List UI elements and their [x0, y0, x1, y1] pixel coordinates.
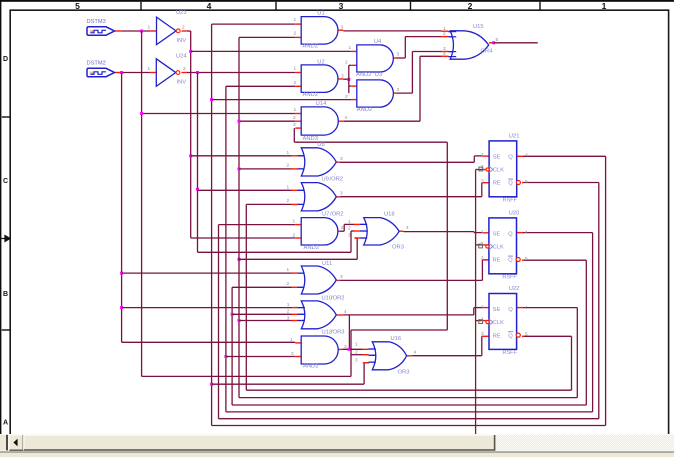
svg-text:U22: U22: [509, 286, 520, 292]
svg-text:3: 3: [481, 331, 484, 337]
svg-text:1: 1: [290, 337, 293, 343]
svg-text:2: 2: [183, 66, 186, 72]
svg-text:B: B: [3, 291, 8, 298]
svg-text:2: 2: [287, 308, 290, 314]
svg-text:U21: U21: [509, 134, 520, 140]
svg-text:5: 5: [525, 256, 528, 262]
svg-text:Q: Q: [508, 231, 513, 237]
svg-text:C: C: [3, 178, 8, 185]
svg-text:U24: U24: [176, 53, 187, 59]
svg-text:2: 2: [481, 241, 484, 247]
svg-text:2: 2: [291, 351, 294, 357]
svg-text:U18: U18: [384, 211, 395, 217]
svg-text:3: 3: [397, 52, 400, 58]
svg-text:D: D: [3, 56, 8, 63]
svg-text:3: 3: [340, 274, 343, 280]
svg-text:4: 4: [207, 1, 212, 11]
svg-text:1: 1: [348, 219, 351, 225]
svg-text:2: 2: [443, 31, 446, 37]
svg-text:2: 2: [294, 31, 297, 37]
svg-text:Q: Q: [508, 307, 513, 313]
svg-text:1: 1: [481, 229, 484, 235]
svg-text:A: A: [3, 420, 8, 427]
svg-text:3: 3: [481, 256, 484, 262]
svg-text:RSFF: RSFF: [503, 350, 518, 356]
svg-text:1: 1: [294, 65, 297, 71]
svg-text:OR3: OR3: [392, 245, 404, 251]
svg-text:1: 1: [287, 267, 290, 273]
svg-text:4: 4: [525, 229, 528, 235]
svg-text:3: 3: [293, 122, 296, 128]
svg-text:U1: U1: [317, 11, 324, 17]
svg-text:1: 1: [355, 341, 358, 347]
svg-text:3: 3: [340, 191, 343, 197]
svg-text:2: 2: [481, 317, 484, 323]
svg-text:2: 2: [345, 94, 348, 100]
svg-text:1: 1: [481, 305, 484, 311]
svg-text:SE: SE: [493, 307, 501, 313]
svg-text:5: 5: [525, 179, 528, 185]
svg-text:3: 3: [481, 179, 484, 185]
svg-text:1: 1: [481, 152, 484, 158]
svg-text:U15: U15: [473, 24, 484, 30]
svg-text:3: 3: [443, 46, 446, 52]
svg-text:Q: Q: [508, 181, 513, 187]
svg-text:5: 5: [496, 37, 499, 43]
svg-text:1: 1: [294, 17, 297, 23]
svg-text:1: 1: [287, 302, 290, 308]
svg-text:3: 3: [348, 233, 351, 239]
svg-text:2: 2: [287, 163, 290, 169]
svg-text:2: 2: [468, 1, 473, 11]
svg-text:RE: RE: [493, 333, 501, 339]
svg-text:RSFF: RSFF: [502, 274, 517, 280]
svg-text:DSTM3: DSTM3: [87, 19, 106, 25]
svg-text:3: 3: [341, 73, 344, 79]
svg-text:1: 1: [287, 184, 290, 190]
svg-text:3: 3: [355, 357, 358, 363]
svg-text:/OR3: /OR3: [331, 330, 345, 336]
svg-text:OR3: OR3: [398, 370, 410, 376]
svg-text:2: 2: [293, 232, 296, 238]
svg-text:AND2: AND2: [357, 107, 372, 113]
svg-text:1: 1: [293, 218, 296, 224]
svg-text:4: 4: [406, 225, 409, 231]
svg-text:2: 2: [287, 198, 290, 204]
svg-text:2: 2: [294, 80, 297, 86]
svg-text:2: 2: [355, 350, 358, 356]
svg-text:5: 5: [525, 331, 528, 337]
svg-text:U7: U7: [322, 211, 329, 217]
svg-text:1: 1: [443, 26, 446, 32]
svg-text:U11: U11: [322, 261, 332, 267]
svg-text:5: 5: [75, 1, 80, 11]
svg-text:4: 4: [414, 350, 417, 356]
svg-text:AND2: AND2: [303, 43, 318, 49]
svg-text:CLK: CLK: [493, 320, 504, 326]
svg-text:AND2: AND2: [303, 92, 318, 98]
svg-text:2: 2: [348, 226, 351, 232]
svg-text:U9: U9: [322, 177, 329, 183]
svg-text:CLK: CLK: [493, 168, 504, 174]
svg-text:1A: 1A: [89, 71, 94, 75]
svg-text:U4: U4: [374, 39, 382, 45]
svg-text:U14: U14: [316, 101, 327, 107]
svg-text:1: 1: [287, 150, 290, 156]
svg-text:1: 1: [602, 1, 607, 11]
svg-text:1: 1: [349, 45, 352, 51]
svg-text:3: 3: [341, 25, 344, 31]
svg-text:INV: INV: [177, 38, 187, 44]
svg-text:3: 3: [340, 156, 343, 162]
svg-text:U3: U3: [375, 72, 382, 78]
svg-text:1: 1: [148, 25, 151, 31]
svg-text:U16: U16: [391, 336, 402, 342]
svg-text:3: 3: [287, 316, 290, 322]
svg-text:RE: RE: [493, 258, 501, 264]
svg-text:AND2: AND2: [356, 72, 371, 78]
svg-text:AND2: AND2: [303, 364, 318, 370]
svg-text:4: 4: [443, 51, 446, 57]
svg-text:SE: SE: [493, 154, 501, 160]
svg-text:RE: RE: [493, 181, 501, 187]
svg-text:3: 3: [339, 1, 344, 11]
svg-text:U23: U23: [176, 10, 187, 16]
svg-text:3: 3: [397, 87, 400, 93]
svg-text:CLK: CLK: [493, 245, 504, 251]
svg-text:DSTM2: DSTM2: [87, 60, 106, 66]
svg-text:Q: Q: [508, 333, 513, 339]
svg-text:2: 2: [287, 281, 290, 287]
svg-text:Q: Q: [508, 258, 513, 264]
svg-text:2: 2: [182, 25, 185, 31]
svg-text:U2: U2: [317, 59, 324, 65]
svg-text:OR4: OR4: [481, 49, 494, 55]
svg-text:/OR2: /OR2: [331, 296, 345, 302]
svg-text:4: 4: [525, 152, 528, 158]
svg-text:1: 1: [294, 107, 297, 113]
svg-text:4: 4: [344, 309, 347, 315]
svg-text:Q: Q: [508, 154, 513, 160]
svg-text:SE: SE: [493, 231, 501, 237]
svg-text:2: 2: [293, 115, 296, 121]
svg-text:/OR2: /OR2: [330, 211, 344, 217]
svg-text:U20: U20: [509, 211, 520, 217]
svg-text:RSFF: RSFF: [503, 197, 518, 203]
svg-text:1: 1: [148, 66, 151, 72]
svg-text:INV: INV: [177, 80, 187, 86]
svg-text:U8: U8: [317, 142, 324, 148]
svg-text:AND2: AND2: [304, 245, 319, 251]
svg-text:/OR2: /OR2: [330, 177, 344, 183]
svg-text:2: 2: [345, 59, 348, 65]
svg-text:4: 4: [525, 305, 528, 311]
svg-text:3: 3: [344, 344, 347, 350]
svg-text:AND3: AND3: [303, 136, 318, 142]
svg-text:2: 2: [481, 164, 484, 170]
svg-text:4: 4: [345, 115, 348, 121]
svg-text:3: 3: [341, 225, 344, 231]
svg-text:1A: 1A: [89, 29, 94, 33]
